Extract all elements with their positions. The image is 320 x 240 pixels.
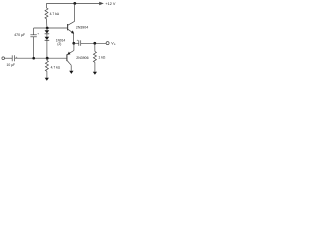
wire output node to R3 [94, 43, 96, 51]
wire base rail node A (cap to Q1 base) [34, 27, 68, 29]
input terminal circle [2, 57, 5, 60]
svg-text:4.7 kΩ: 4.7 kΩ [50, 12, 60, 16]
svg-text:10 µF: 10 µF [7, 63, 16, 67]
node A junction dot [46, 27, 49, 30]
capacitor C2 470uF vertical [30, 28, 36, 58]
ground arrow middle [69, 71, 73, 74]
svg-text:+12 V: +12 V [105, 2, 115, 6]
svg-text:2N3906: 2N3906 [76, 56, 88, 60]
resistor R1 4.7 k [45, 8, 48, 19]
resistor R3 1 k [93, 52, 96, 63]
resistor R2 4.7 k [45, 61, 48, 72]
diode D1 1N914 [45, 28, 50, 34]
svg-text:2N3904: 2N3904 [76, 26, 88, 30]
wire R3 to ground arrow [94, 62, 96, 72]
power arrow +12V [99, 2, 104, 6]
node junction C2 bottom on rail [32, 57, 35, 60]
node junction output to R3 [93, 42, 96, 45]
wire R2 to ground arrow [46, 71, 48, 78]
transistor Q1 2N3904 [68, 3, 75, 43]
node junction top rail to Q1 collector [73, 2, 76, 5]
wire R1 bottom to node A [46, 19, 48, 28]
wire C3 to output terminal [81, 42, 106, 44]
wire bottom rail C1 to Q2 base [15, 57, 67, 59]
wire top rail +12V [47, 2, 100, 4]
transistor Q2 2N3906 [67, 43, 74, 71]
svg-text:470 µF: 470 µF [14, 33, 25, 37]
svg-text:+: + [37, 32, 39, 36]
wire node B to R2 [46, 58, 48, 60]
svg-text:+: + [77, 38, 79, 42]
node emitter junction dot [72, 42, 75, 45]
svg-text:o: o [114, 43, 116, 46]
wire resistor R1 top lead [46, 3, 48, 8]
svg-text:(2): (2) [57, 42, 61, 46]
capacitor C3 output coupling [79, 40, 81, 46]
label 1N914 (2) [56, 39, 66, 46]
ground arrow right [93, 72, 97, 75]
diode D2 1N914 [45, 34, 50, 58]
wire input to C1 [5, 57, 13, 59]
svg-text:1 kΩ: 1 kΩ [98, 56, 106, 60]
wire emitter node to C3 [74, 42, 79, 44]
svg-text:4.7 kΩ: 4.7 kΩ [51, 66, 61, 70]
output terminal circle [106, 42, 109, 45]
capacitor C1 input coupling [12, 55, 14, 61]
node B junction diodes/R2 on rail [46, 57, 49, 60]
label Vo [111, 41, 116, 46]
ground arrow left [45, 78, 49, 81]
